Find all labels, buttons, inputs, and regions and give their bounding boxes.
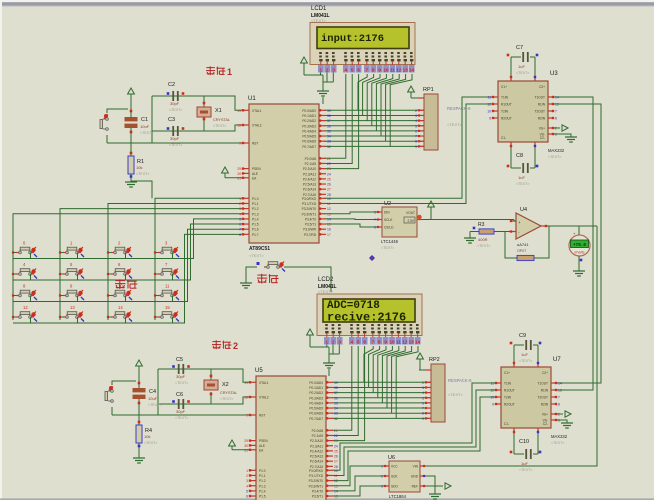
svg-text:<TEXT>: <TEXT> — [220, 397, 233, 401]
svg-text:26: 26 — [334, 455, 338, 459]
svg-text:XTAL1: XTAL1 — [252, 109, 262, 113]
svg-text:7: 7 — [372, 340, 375, 345]
U7 label MAX232 — [551, 434, 568, 445]
keypad button 4 — [12, 262, 37, 280]
svg-text:<TEXT>: <TEXT> — [448, 392, 464, 397]
wire P0.3 to RP2 — [332, 397, 431, 399]
svg-text:PSEN: PSEN — [259, 439, 268, 443]
svg-text:P3.1/TXD: P3.1/TXD — [309, 474, 324, 478]
svg-text:21: 21 — [327, 157, 331, 161]
wire U1 P3.3 to U2 DIN — [324, 212, 377, 214]
svg-text:<TEXT>: <TEXT> — [213, 124, 226, 128]
svg-text:35: 35 — [327, 129, 331, 133]
svg-text:18: 18 — [237, 124, 241, 128]
keypad button 6 — [107, 262, 132, 280]
svg-text:C2-: C2- — [543, 422, 548, 426]
wire LCD2 D5 — [387, 346, 405, 408]
capacitor C4 electrolytic — [133, 388, 162, 407]
svg-text:C1: C1 — [141, 117, 148, 123]
svg-text:10k: 10k — [144, 434, 150, 439]
svg-text:11: 11 — [390, 68, 395, 73]
U5 EA power arrow — [229, 440, 249, 450]
keypad button 7 — [154, 262, 179, 280]
wire feedback loop — [505, 226, 549, 258]
svg-text:P3.5/T1: P3.5/T1 — [312, 495, 323, 499]
wire reset column — [130, 96, 133, 156]
wire LCD2 pin2 stub — [332, 345, 334, 355]
svg-text:11: 11 — [396, 340, 401, 345]
svg-text:12: 12 — [396, 68, 402, 73]
wire opamp plus input — [514, 220, 516, 222]
svg-text:3: 3 — [338, 340, 341, 345]
svg-text:C2-: C2- — [540, 136, 545, 140]
svg-text:LCD2: LCD2 — [318, 277, 334, 283]
wire keypad column 2 to P1.1 — [108, 204, 242, 321]
wire LCD2 ctrl0 — [332, 346, 352, 430]
wire P0.2 to RP1 — [324, 120, 424, 122]
wire opamp output — [547, 225, 597, 227]
wire P0.5 to RP1 — [324, 135, 424, 137]
svg-text:4: 4 — [239, 212, 241, 216]
svg-text:P1.4: P1.4 — [252, 217, 259, 221]
svg-text:4: 4 — [345, 68, 348, 73]
svg-text:P2.3/A11: P2.3/A11 — [303, 172, 316, 176]
svg-text:P1.4: P1.4 — [259, 489, 266, 493]
svg-text:13: 13 — [334, 484, 338, 488]
svg-text:4: 4 — [422, 391, 424, 395]
svg-text:C1+: C1+ — [501, 85, 507, 89]
svg-text:3: 3 — [422, 386, 424, 390]
svg-text:33: 33 — [334, 412, 338, 416]
svg-text:<TEXT>: <TEXT> — [169, 108, 182, 112]
svg-text:8: 8 — [422, 412, 424, 416]
wire button2 top — [112, 381, 136, 385]
left window edge — [0, 0, 2, 500]
svg-text:<TEXT>: <TEXT> — [516, 71, 529, 75]
wire U1 P3.4 to U2 SCK — [324, 218, 377, 221]
svg-text:RST: RST — [252, 142, 258, 146]
svg-text:T2IN: T2IN — [501, 110, 509, 114]
label system1 (red chinese) — [206, 66, 232, 77]
svg-text:U6: U6 — [388, 455, 395, 461]
svg-text:XTAL1: XTAL1 — [259, 381, 269, 385]
svg-text:C2+: C2+ — [542, 371, 548, 375]
wire LCD1 D4 — [376, 74, 392, 131]
svg-text:T2OUT: T2OUT — [538, 396, 549, 400]
wire button1 top — [107, 109, 128, 113]
svg-text:<TEXT>: <TEXT> — [516, 182, 529, 186]
svg-text:2: 2 — [233, 341, 238, 351]
keypad button 14 — [107, 305, 132, 323]
voltmeter probe — [569, 231, 590, 256]
svg-text:P2.4/A12: P2.4/A12 — [310, 449, 323, 453]
wire XTAL2 rail S2 — [158, 397, 249, 404]
svg-text:P3.4/T0: P3.4/T0 — [305, 217, 316, 221]
svg-text:P1.3: P1.3 — [252, 212, 259, 216]
svg-text:R2IN: R2IN — [538, 117, 546, 121]
ground below R3 left — [464, 232, 476, 244]
svg-text:R3: R3 — [478, 222, 485, 228]
U3 VS- ground — [554, 134, 577, 142]
wire LCD2 D7 — [396, 346, 418, 418]
capacitor C6 — [172, 392, 190, 420]
crystal X2 — [204, 380, 237, 401]
svg-text:2: 2 — [239, 202, 241, 206]
svg-text:REF: REF — [412, 485, 418, 489]
svg-text:P1.5: P1.5 — [252, 223, 259, 227]
capacitor C1 electrolytic — [125, 117, 154, 135]
svg-text:7: 7 — [422, 407, 424, 411]
svg-text:R2OUT: R2OUT — [504, 403, 515, 407]
svg-text:15: 15 — [327, 223, 331, 227]
svg-text:<TEXT>: <TEXT> — [249, 253, 265, 258]
svg-text:P1.1: P1.1 — [259, 474, 266, 478]
wire P0.6 to RP2 — [332, 412, 431, 414]
svg-text:P2.3/A11: P2.3/A11 — [310, 444, 323, 448]
svg-text:T2OUT: T2OUT — [535, 110, 546, 114]
svg-text:P3.4/T0: P3.4/T0 — [312, 489, 323, 493]
svg-text:9: 9 — [492, 403, 494, 407]
wire LCD1 D0 — [358, 74, 367, 110]
keypad button 8 — [12, 284, 37, 302]
svg-text:23: 23 — [334, 439, 338, 443]
svg-text:RP1: RP1 — [423, 87, 434, 93]
label qingling (clear, red chinese) — [115, 279, 137, 289]
U2 power arrow — [428, 201, 435, 207]
keypad button 15 — [154, 305, 179, 323]
wire LCD1 D3 — [372, 74, 387, 126]
svg-text:mVolts: mVolts — [574, 251, 584, 255]
svg-text:15: 15 — [165, 305, 170, 310]
svg-text:9: 9 — [239, 142, 241, 146]
svg-text:<TEXT>: <TEXT> — [148, 403, 161, 407]
keypad button 3 — [154, 241, 179, 259]
wire U5 to U6 b — [332, 476, 384, 491]
svg-text:LTC1446: LTC1446 — [381, 239, 399, 244]
svg-text:P0.0/AD0: P0.0/AD0 — [309, 381, 323, 385]
svg-text:CS/LD: CS/LD — [384, 226, 394, 230]
pushbutton S2 reset — [105, 386, 113, 402]
svg-text:+75.0: +75.0 — [573, 243, 586, 248]
svg-text:9: 9 — [378, 68, 381, 73]
svg-text:RP2: RP2 — [429, 357, 440, 363]
wire keypad row 2 to P1.6 — [13, 229, 242, 301]
wire LCD2 ctrl1 — [332, 346, 358, 435]
svg-text:3: 3 — [415, 114, 417, 118]
svg-text:10: 10 — [490, 396, 494, 400]
svg-text:32: 32 — [327, 145, 331, 149]
svg-text:12: 12 — [402, 340, 408, 345]
svg-text:<TEXT>: <TEXT> — [144, 441, 157, 445]
svg-text:P3.3/INT1: P3.3/INT1 — [309, 484, 324, 488]
svg-text:9: 9 — [415, 145, 417, 149]
svg-text:24: 24 — [327, 172, 331, 176]
svg-text:14: 14 — [334, 489, 338, 493]
wire crystal X2 stems — [210, 369, 213, 404]
svg-text:T1IN: T1IN — [504, 382, 512, 386]
svg-text:X1: X1 — [215, 108, 222, 114]
svg-text:10: 10 — [327, 197, 331, 201]
wire P0.6 to RP1 — [324, 140, 424, 142]
svg-text:14: 14 — [558, 382, 562, 386]
wire RST rail — [107, 142, 242, 144]
svg-text:P0.1/AD1: P0.1/AD1 — [302, 114, 316, 118]
svg-text:C1+: C1+ — [504, 371, 510, 375]
wire RST rail S2 — [112, 414, 249, 416]
svg-text:32: 32 — [334, 417, 338, 421]
resistor R4 — [136, 425, 157, 445]
svg-text:<TEXT>: <TEXT> — [381, 246, 394, 250]
svg-text:P1.6: P1.6 — [252, 228, 259, 232]
svg-text:P2.6/A14: P2.6/A14 — [303, 188, 316, 192]
U6 power arrow — [425, 483, 451, 489]
keypad button 11 — [154, 284, 179, 302]
svg-text:1: 1 — [320, 68, 323, 73]
svg-text:13: 13 — [558, 389, 562, 393]
svg-text:16: 16 — [327, 228, 331, 232]
svg-text:23: 23 — [327, 167, 331, 171]
capacitor C7 — [507, 45, 539, 75]
svg-text:CRYSTAL: CRYSTAL — [220, 391, 237, 395]
keypad button 13 — [59, 305, 84, 323]
svg-text:P3.2/INT0: P3.2/INT0 — [309, 479, 324, 483]
svg-text:RST: RST — [259, 414, 265, 418]
wire LCD2 D6 — [392, 346, 412, 413]
keypad button 10 — [107, 284, 132, 302]
svg-text:7: 7 — [239, 228, 241, 232]
svg-text:8: 8 — [378, 340, 381, 345]
svg-text:VIN: VIN — [413, 465, 419, 469]
svg-text:13: 13 — [327, 212, 331, 216]
resistor pack RP2 RESPACK-8 — [422, 357, 472, 422]
svg-text:<TEXT>: <TEXT> — [136, 172, 149, 176]
wire reset column S2 — [138, 369, 141, 425]
svg-text:P2.1/A9: P2.1/A9 — [312, 434, 324, 438]
capacitor C10 — [510, 439, 542, 472]
svg-text:27: 27 — [334, 460, 338, 464]
svg-text:14: 14 — [409, 68, 415, 73]
wire XTAL1 rail S2 — [158, 369, 249, 382]
svg-text:12: 12 — [23, 305, 28, 310]
svg-text:P0.0/AD0: P0.0/AD0 — [302, 109, 316, 113]
wire P0.7 to RP1 — [324, 145, 424, 147]
U7 VS- ground — [557, 420, 573, 428]
svg-text:C2+: C2+ — [539, 85, 545, 89]
MAX232 U7 — [490, 357, 562, 433]
LCD1 power arrow — [301, 57, 323, 75]
svg-text:14: 14 — [327, 217, 331, 221]
wire U6 VIN line — [425, 226, 597, 466]
svg-text:C9: C9 — [519, 333, 526, 339]
svg-text:8: 8 — [555, 117, 557, 121]
U7 VS+ power — [557, 411, 571, 417]
U1 EA power arrow — [222, 167, 242, 178]
svg-text:P1.0: P1.0 — [259, 469, 266, 473]
svg-text:9: 9 — [384, 340, 387, 345]
U3 VS+ power — [554, 125, 568, 131]
wire C10 to U7 — [514, 433, 538, 454]
svg-text:U2: U2 — [384, 201, 391, 207]
svg-text:3: 3 — [381, 485, 383, 489]
svg-text:7: 7 — [558, 396, 560, 400]
svg-text:VS+: VS+ — [539, 127, 545, 131]
LCD2 power arrow — [307, 329, 329, 347]
svg-text:MAX232: MAX232 — [548, 148, 565, 153]
svg-text:ALE: ALE — [259, 444, 265, 448]
svg-text:<TEXT>: <TEXT> — [318, 289, 334, 294]
svg-text:uA741: uA741 — [517, 242, 529, 247]
wire U2 VOUT to opamp — [422, 207, 514, 220]
resistor R3 — [473, 222, 494, 248]
capacitor C2 — [167, 82, 185, 112]
svg-text:36: 36 — [334, 396, 338, 400]
svg-text:P1.5: P1.5 — [259, 495, 266, 499]
svg-text:1: 1 — [326, 340, 329, 345]
feedback resistor R5 — [517, 255, 534, 260]
wire crystal X1 stems — [203, 96, 206, 131]
svg-text:DIN: DIN — [384, 211, 390, 215]
svg-text:17: 17 — [327, 233, 331, 237]
wire LCD2 ctrl2 — [332, 346, 365, 441]
wire U5 to U6 a — [332, 466, 384, 486]
svg-text:P3.0/RXD: P3.0/RXD — [309, 469, 324, 473]
U3 label MAX232 — [548, 148, 565, 159]
svg-text:11: 11 — [165, 284, 170, 289]
capacitor C8 — [507, 153, 539, 186]
svg-text:30pF: 30pF — [176, 409, 186, 414]
wire P0.4 to RP2 — [332, 402, 431, 404]
wire keypad column 3 to P1.0 — [155, 198, 242, 320]
svg-text:24: 24 — [334, 444, 338, 448]
svg-text:10k: 10k — [136, 165, 142, 170]
svg-text:P3.1/TXD: P3.1/TXD — [302, 202, 317, 206]
svg-text:2: 2 — [422, 381, 424, 385]
ADC U6 LTC1864 — [381, 455, 425, 499]
svg-text:R1OUT: R1OUT — [501, 103, 512, 107]
svg-text:VS+: VS+ — [542, 413, 548, 417]
svg-text:P2.1/A9: P2.1/A9 — [305, 162, 317, 166]
svg-text:C3: C3 — [168, 117, 175, 123]
wire keypad row 0 to P1.4 — [13, 219, 242, 259]
svg-text:10: 10 — [334, 469, 338, 473]
svg-text:6: 6 — [357, 68, 360, 73]
svg-text:25: 25 — [327, 177, 331, 181]
svg-text:T1OUT: T1OUT — [535, 96, 546, 100]
wire P0.1 to RP1 — [324, 114, 424, 116]
svg-text:37: 37 — [327, 119, 331, 123]
svg-text:5: 5 — [246, 489, 248, 493]
wire rail join left — [151, 96, 153, 143]
pushbutton S1 reset — [100, 114, 108, 130]
svg-text:P1.2: P1.2 — [259, 479, 266, 483]
svg-text:LTC1864: LTC1864 — [389, 494, 407, 499]
svg-text:38: 38 — [327, 114, 331, 118]
keypad button 5 — [59, 262, 84, 280]
wire R3 net — [470, 231, 514, 233]
svg-text:2: 2 — [381, 475, 383, 479]
bottom window edge — [0, 498, 654, 500]
ground below meter — [573, 271, 585, 276]
svg-text:37: 37 — [334, 391, 338, 395]
svg-text:<TEXT>: <TEXT> — [169, 143, 182, 147]
wire U3 T1OUT to U7 R1IN — [554, 97, 593, 390]
wire LCD1 D2 — [367, 74, 380, 121]
svg-text:19: 19 — [244, 381, 248, 385]
microcontroller U5 AT89C51 — [244, 368, 338, 500]
microcontroller U1 AT89C51 — [237, 96, 331, 258]
svg-text:5: 5 — [239, 217, 241, 221]
svg-text:8: 8 — [415, 140, 417, 144]
svg-text:39: 39 — [327, 109, 331, 113]
wire U1 P3.0 to U3 — [324, 97, 492, 198]
svg-text:30: 30 — [237, 172, 241, 176]
svg-text:<TEXT>: <TEXT> — [140, 131, 153, 135]
svg-text:7: 7 — [366, 68, 369, 73]
svg-text:P2.5/A13: P2.5/A13 — [310, 455, 323, 459]
label system2 (red chinese) — [212, 340, 238, 351]
wire button1 bottom — [106, 135, 108, 143]
keypad button 2 — [107, 241, 132, 259]
svg-text:ALE: ALE — [252, 172, 258, 176]
keypad button 0 — [12, 241, 37, 259]
svg-text:12: 12 — [490, 389, 494, 393]
wire U3 R1IN to U7 T1OUT — [554, 104, 601, 383]
wire keypad row 3 to P1.7 — [13, 234, 242, 323]
svg-text:P2.4/A12: P2.4/A12 — [303, 177, 316, 181]
node junction marker — [369, 255, 375, 261]
svg-text:4: 4 — [246, 484, 248, 488]
RP2 power arrow — [417, 353, 425, 370]
svg-text:P1.1: P1.1 — [252, 202, 259, 206]
svg-text:C5: C5 — [176, 357, 183, 363]
svg-text:8: 8 — [372, 68, 375, 73]
wire R4 to ground — [138, 443, 141, 452]
wire R4 gnd stem — [138, 452, 140, 458]
svg-text:P2.0/A8: P2.0/A8 — [312, 429, 324, 433]
wire LCD2 D2 — [373, 346, 386, 393]
svg-text:P1.2: P1.2 — [252, 207, 259, 211]
wire LCD2 D1 — [369, 346, 380, 387]
svg-text:C7: C7 — [516, 45, 523, 51]
svg-text:P2.5/A13: P2.5/A13 — [303, 183, 316, 187]
wire comm button left — [246, 267, 257, 283]
svg-text:35: 35 — [334, 401, 338, 405]
wire C8 to U3 — [511, 147, 535, 168]
wire keypad row 1 to P1.5 — [13, 224, 242, 280]
wire LCD2 D4 — [382, 346, 398, 403]
MAX232 U3 — [487, 71, 559, 147]
DAC U2 LTC1446 — [374, 201, 422, 250]
svg-text:SCK: SCK — [391, 475, 398, 479]
wire P0.7 to RP2 — [332, 417, 431, 419]
wire LCD2 D0 — [364, 346, 373, 382]
wire LCD1 ctrl1 to P2.1 — [324, 74, 352, 163]
LCD1 module LM041L — [310, 6, 415, 73]
svg-text:13: 13 — [403, 68, 409, 73]
svg-text:C10: C10 — [519, 439, 529, 445]
capacitor C9 — [510, 333, 542, 363]
svg-text:6: 6 — [246, 495, 248, 499]
ground below R4 — [133, 458, 145, 463]
wire keypad column 1 to P1.2 — [60, 209, 242, 320]
svg-text:P1.7: P1.7 — [252, 233, 259, 237]
svg-text:19: 19 — [237, 109, 241, 113]
svg-text:P0.6/AD6: P0.6/AD6 — [309, 412, 323, 416]
svg-text:<TEXT>: <TEXT> — [477, 244, 490, 248]
svg-text:6: 6 — [239, 223, 241, 227]
svg-text:T1IN: T1IN — [501, 96, 509, 100]
svg-text:U5: U5 — [255, 368, 263, 374]
